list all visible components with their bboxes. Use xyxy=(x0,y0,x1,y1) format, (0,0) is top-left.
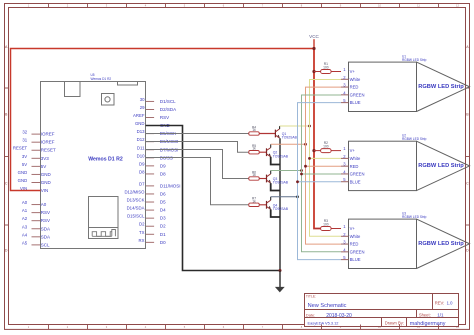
wire D13 to R4 xyxy=(146,133,249,135)
svg-text:10: 10 xyxy=(378,4,381,8)
ground xyxy=(279,271,281,288)
junction red U2 xyxy=(304,165,307,168)
svg-text:RGBW LED Strip: RGBW LED Strip xyxy=(402,58,427,62)
svg-text:7: 7 xyxy=(262,325,264,329)
wire D11 to R6 xyxy=(146,150,249,179)
svg-text:RESET: RESET xyxy=(13,146,28,151)
svg-text:1k: 1k xyxy=(252,173,256,177)
svg-text:1: 1 xyxy=(343,146,346,151)
svg-text:B: B xyxy=(466,112,469,116)
svg-text:VCC: VCC xyxy=(309,34,319,39)
wire Q2 collector to red bus xyxy=(271,143,306,145)
wire Q4 collector stub xyxy=(270,197,272,200)
svg-text:D2/SDA: D2/SDA xyxy=(160,107,176,112)
svg-text:Sheet:: Sheet: xyxy=(419,312,431,317)
svg-text:100: 100 xyxy=(323,66,329,70)
svg-text:Wemos D1 R2: Wemos D1 R2 xyxy=(91,77,112,81)
Wemos left pin stubs xyxy=(32,134,41,245)
svg-text:RGBW LED Strip: RGBW LED Strip xyxy=(418,241,464,247)
Wemos board button box with circle xyxy=(102,94,115,106)
junction Q2 red bus xyxy=(304,143,307,146)
svg-text:D12/MISO: D12/MISO xyxy=(124,189,145,194)
Wemos board ESP module with antenna xyxy=(89,197,119,239)
svg-text:3: 3 xyxy=(106,4,108,8)
wire blue to U2 pin5 xyxy=(298,181,342,183)
junction Q1 white bus xyxy=(308,125,311,128)
wire Q3 collector to green bus xyxy=(271,170,302,172)
Wemos D1 R2 board U5 outline xyxy=(41,82,146,249)
svg-text:9: 9 xyxy=(340,4,342,8)
svg-text:Drawn By:: Drawn By: xyxy=(385,321,404,326)
svg-text:GREEN: GREEN xyxy=(350,172,365,177)
svg-text:REV:: REV: xyxy=(435,301,445,306)
svg-text:5V: 5V xyxy=(41,164,47,169)
wire Q1 collector stub xyxy=(279,126,281,129)
wire Q4 collector to blue bus xyxy=(271,196,298,198)
junction VCC top xyxy=(312,47,315,50)
connector U3 RGBW LED Strip xyxy=(349,219,417,268)
svg-text:GND: GND xyxy=(41,180,52,185)
svg-text:3V: 3V xyxy=(22,154,27,159)
transistor Q4 xyxy=(266,201,268,209)
svg-text:White: White xyxy=(350,77,361,82)
svg-text:D13/SCK: D13/SCK xyxy=(127,198,145,203)
wire D10 to R7 xyxy=(146,158,249,205)
svg-text:D9: D9 xyxy=(160,163,166,168)
svg-text:D7: D7 xyxy=(139,181,145,186)
svg-text:D1/SCL: D1/SCL xyxy=(160,99,176,104)
svg-text:30: 30 xyxy=(140,97,145,102)
svg-text:2018-03-20: 2018-03-20 xyxy=(326,313,352,319)
svg-text:GND: GND xyxy=(18,170,28,175)
Wemos left pin names xyxy=(41,132,56,248)
svg-text:A4: A4 xyxy=(22,232,28,237)
resistor R4 xyxy=(249,132,259,135)
svg-text:RGBW LED Strip: RGBW LED Strip xyxy=(418,84,464,90)
svg-text:RGBW LED Strip: RGBW LED Strip xyxy=(418,163,464,169)
svg-text:29: 29 xyxy=(140,105,145,110)
wire GND black path xyxy=(146,126,281,271)
svg-text:RED: RED xyxy=(350,242,359,247)
svg-text:IOREF: IOREF xyxy=(41,132,55,137)
power flag VCC xyxy=(313,39,315,48)
svg-text:SCL: SCL xyxy=(41,242,50,247)
junction Q4 blue bus xyxy=(296,195,299,198)
junction VCC R1 xyxy=(312,70,315,73)
svg-text:D4: D4 xyxy=(160,208,166,213)
svg-text:D1: D1 xyxy=(160,232,166,237)
svg-text:A0: A0 xyxy=(22,200,28,205)
svg-text:TX: TX xyxy=(139,230,145,235)
junction green U2 xyxy=(300,173,303,176)
svg-text:RED: RED xyxy=(350,85,359,90)
svg-text:D12: D12 xyxy=(137,137,145,142)
transistor Q3 xyxy=(266,175,268,183)
svg-text:GND: GND xyxy=(135,121,145,126)
svg-text:D0: D0 xyxy=(160,240,166,245)
svg-text:BLUE: BLUE xyxy=(350,179,361,184)
svg-text:D: D xyxy=(5,248,8,252)
svg-text:RED: RED xyxy=(350,164,359,169)
svg-text:A1: A1 xyxy=(22,208,28,213)
wire blue bus xyxy=(298,103,342,260)
svg-text:V+: V+ xyxy=(350,148,356,153)
svg-text:Wemos D1 R2: Wemos D1 R2 xyxy=(88,156,123,162)
svg-text:TO92SAB: TO92SAB xyxy=(273,154,289,158)
junction VCC R2 xyxy=(312,149,315,152)
svg-text:SDA: SDA xyxy=(41,226,50,231)
svg-text:D6: D6 xyxy=(160,191,166,196)
Wemos left pin numbers xyxy=(13,130,28,246)
svg-text:2: 2 xyxy=(67,4,69,8)
svg-text:5V: 5V xyxy=(22,162,27,167)
wire VCC vertical bus xyxy=(314,49,321,229)
svg-text:1k: 1k xyxy=(252,128,256,132)
connector U1 RGBW LED Strip xyxy=(349,62,417,111)
wire Q2 emitter to bus xyxy=(271,157,280,165)
title block frame xyxy=(305,294,459,327)
svg-text:V+: V+ xyxy=(350,69,356,74)
svg-text:1/1: 1/1 xyxy=(437,313,444,318)
wire VIN red loop xyxy=(11,49,315,191)
svg-text:D9: D9 xyxy=(139,161,145,166)
svg-text:1k: 1k xyxy=(252,147,256,151)
svg-text:RGBW LED Strip: RGBW LED Strip xyxy=(402,137,427,141)
wire R5 to Q2 base xyxy=(259,151,266,153)
svg-text:TO92SAB: TO92SAB xyxy=(273,207,289,211)
svg-text:TO92SAB: TO92SAB xyxy=(282,136,298,140)
svg-text:3: 3 xyxy=(106,325,108,329)
Wemos board USB connector box xyxy=(65,82,81,97)
svg-text:A5: A5 xyxy=(22,240,28,245)
wire Q1 collector to white bus xyxy=(280,125,310,127)
svg-text:1.0: 1.0 xyxy=(447,301,453,306)
svg-text:EasyEDA V5.3.12: EasyEDA V5.3.12 xyxy=(308,321,339,326)
svg-text:TO92SAB: TO92SAB xyxy=(273,181,289,185)
svg-text:mahdigermany: mahdigermany xyxy=(410,321,446,327)
svg-text:1: 1 xyxy=(343,67,346,72)
svg-text:5: 5 xyxy=(184,325,186,329)
svg-text:RSV: RSV xyxy=(41,218,50,223)
svg-text:1k: 1k xyxy=(252,199,256,203)
wire red bus xyxy=(306,87,342,244)
svg-text:100: 100 xyxy=(323,223,329,227)
svg-text:White: White xyxy=(350,234,361,239)
svg-text:32: 32 xyxy=(22,130,27,135)
svg-text:11: 11 xyxy=(417,4,420,8)
border row ticks xyxy=(5,88,470,225)
svg-text:TITLE:: TITLE: xyxy=(306,295,316,299)
title block text xyxy=(306,295,453,328)
svg-text:D14/SDA: D14/SDA xyxy=(127,206,145,211)
svg-text:GND: GND xyxy=(41,172,52,177)
svg-text:D2: D2 xyxy=(160,224,166,229)
svg-text:A: A xyxy=(5,45,8,49)
svg-text:D11: D11 xyxy=(137,145,145,150)
connector U2 RGBW LED Strip xyxy=(349,141,417,190)
wire R4 to Q1 base xyxy=(259,133,275,135)
resistor R1 xyxy=(314,71,321,73)
svg-text:D10: D10 xyxy=(137,153,145,158)
transistor Q1 xyxy=(274,130,276,138)
svg-text:4: 4 xyxy=(145,4,147,8)
svg-text:IOREF: IOREF xyxy=(41,140,55,145)
svg-text:D: D xyxy=(466,248,469,252)
svg-text:Date:: Date: xyxy=(306,313,315,318)
wire white to U2 pin2 xyxy=(310,157,342,159)
svg-text:V+: V+ xyxy=(350,226,356,231)
svg-text:RGBW LED Strip: RGBW LED Strip xyxy=(402,215,427,219)
svg-text:1: 1 xyxy=(28,4,30,8)
svg-text:White: White xyxy=(350,156,361,161)
svg-text:A0: A0 xyxy=(41,202,47,207)
svg-text:VIN: VIN xyxy=(41,188,49,193)
wire Q3 collector stub xyxy=(270,171,272,174)
svg-text:GREEN: GREEN xyxy=(350,92,365,97)
svg-text:GREEN: GREEN xyxy=(350,249,365,254)
resistor R2 xyxy=(314,150,321,152)
svg-text:8: 8 xyxy=(301,4,303,8)
svg-text:6: 6 xyxy=(223,4,225,8)
wire D12 to R5 xyxy=(146,142,249,153)
wire Q4 emitter to bus xyxy=(271,209,280,217)
svg-text:RSV: RSV xyxy=(160,115,169,120)
junction white U2 xyxy=(308,157,311,160)
svg-text:BLUE: BLUE xyxy=(350,257,361,262)
wire red to U2 pin3 xyxy=(306,165,342,167)
svg-text:4: 4 xyxy=(145,325,147,329)
Wemos right pin stubs xyxy=(146,101,154,242)
svg-text:7: 7 xyxy=(262,4,264,8)
junction Q3 green bus xyxy=(300,169,303,172)
svg-text:D3: D3 xyxy=(160,216,166,221)
svg-text:2: 2 xyxy=(67,325,69,329)
wire R7 to Q4 base xyxy=(259,204,266,206)
resistor R7 xyxy=(249,203,259,206)
svg-text:5: 5 xyxy=(184,4,186,8)
wire white bus xyxy=(310,80,342,237)
Wemos board top edge connector xyxy=(118,82,138,86)
wire Q1 emitter bus xyxy=(279,138,281,270)
svg-text:GND: GND xyxy=(18,178,28,183)
resistor R5 xyxy=(249,151,259,154)
svg-text:A3: A3 xyxy=(22,224,28,229)
resistor R6 xyxy=(249,177,259,180)
svg-text:RSV: RSV xyxy=(41,210,50,215)
svg-text:RX: RX xyxy=(139,238,145,243)
svg-text:D2: D2 xyxy=(139,222,145,227)
svg-text:D8: D8 xyxy=(139,169,145,174)
Wemos right pin numbers xyxy=(124,97,145,243)
svg-text:A2: A2 xyxy=(22,216,28,221)
svg-text:C: C xyxy=(5,181,8,185)
svg-text:D8: D8 xyxy=(160,171,166,176)
svg-text:12: 12 xyxy=(456,4,459,8)
svg-text:6: 6 xyxy=(223,325,225,329)
svg-text:B: B xyxy=(5,112,8,116)
svg-text:3V3: 3V3 xyxy=(41,156,50,161)
svg-text:100: 100 xyxy=(323,145,329,149)
border row letters A-D xyxy=(5,45,469,253)
svg-text:1: 1 xyxy=(343,224,346,229)
wire green bus xyxy=(302,95,342,252)
svg-text:AREF: AREF xyxy=(133,113,145,118)
svg-text:RESET: RESET xyxy=(41,148,56,153)
resistor R3 xyxy=(314,228,321,230)
junction emitter bus at ground xyxy=(279,269,282,272)
svg-text:C: C xyxy=(466,181,469,185)
wire R6 to Q3 base xyxy=(259,178,266,180)
svg-text:New Schematic: New Schematic xyxy=(308,303,347,309)
svg-text:D13: D13 xyxy=(137,129,145,134)
svg-text:31: 31 xyxy=(22,138,27,143)
wire Q3 emitter to bus xyxy=(271,183,280,190)
svg-text:D11/MOSI: D11/MOSI xyxy=(160,183,181,188)
svg-text:1: 1 xyxy=(28,325,30,329)
svg-text:BLUE: BLUE xyxy=(350,100,361,105)
svg-text:D5: D5 xyxy=(160,200,166,205)
Wemos right pin names xyxy=(160,99,181,245)
wire green to U2 pin4 xyxy=(302,173,342,175)
svg-text:D15/SCL: D15/SCL xyxy=(127,214,145,219)
svg-text:SDA: SDA xyxy=(41,234,50,239)
svg-text:A: A xyxy=(466,45,469,49)
wire Q2 collector stub xyxy=(270,144,272,147)
transistor Q2 xyxy=(266,148,268,156)
junction blue U2 xyxy=(296,180,299,183)
svg-text:8: 8 xyxy=(301,325,303,329)
